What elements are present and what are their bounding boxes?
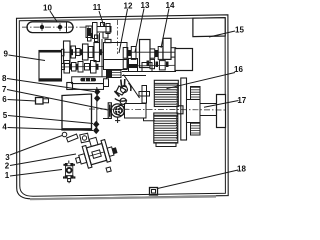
item 3 square bearing — [80, 133, 89, 142]
leader 1 — [10, 170, 62, 177]
leader 2 — [10, 154, 76, 166]
cluster top posts — [88, 34, 99, 42]
vertical axis x=117.5 — [117, 20, 119, 54]
box 5 — [62, 94, 92, 130]
svg-text:13: 13 — [141, 1, 150, 10]
hub tick RA — [128, 50, 131, 56]
u-joint diamond 4 — [93, 127, 99, 134]
small box 7 — [67, 83, 73, 90]
gear L5 — [89, 47, 94, 58]
leader 4 — [8, 128, 94, 131]
capsule 10 inner line — [66, 22, 68, 33]
shaft II centerline — [62, 65, 194, 67]
hub tick RC — [155, 50, 158, 57]
leader 6 — [8, 100, 37, 102]
svg-text:5: 5 — [3, 111, 8, 120]
u-joint diamond 2 — [94, 95, 100, 102]
box 9 — [39, 51, 62, 82]
gear R3 big — [140, 40, 151, 68]
handwheel left bar — [108, 103, 111, 119]
right housing box — [175, 49, 193, 71]
svg-text:12: 12 — [124, 2, 133, 11]
box 9 top band — [39, 51, 62, 53]
box 15 — [193, 18, 225, 37]
svg-text:17: 17 — [237, 96, 246, 105]
box 9 bottom band — [39, 78, 62, 81]
teeth ladder lower — [191, 123, 201, 136]
cone gear lower block — [154, 113, 178, 143]
assembly 11 tall post — [93, 23, 98, 39]
leader 14 — [161, 9, 169, 49]
capsule 10 — [27, 22, 73, 33]
svg-text:10: 10 — [43, 4, 52, 13]
assembly 11 down link — [99, 33, 101, 43]
ratchet arm — [115, 91, 120, 97]
gear M3 — [78, 62, 83, 73]
leader 12 — [119, 9, 128, 53]
plate 17 — [217, 95, 226, 128]
central housing lower box — [104, 60, 128, 70]
box 18 — [150, 188, 158, 196]
bolt below cluster — [139, 86, 150, 104]
main axis centerline y=110 — [89, 109, 226, 110]
sleeve — [200, 104, 217, 116]
gear M5 — [91, 61, 97, 74]
svg-text:6: 6 — [2, 95, 7, 104]
housing top notch — [105, 39, 111, 42]
central housing left double edge — [101, 39, 103, 78]
cone gear base — [156, 143, 176, 147]
item 6 cylinder — [36, 98, 49, 105]
svg-text:15: 15 — [235, 26, 244, 35]
ratchet wheel — [121, 86, 128, 93]
leader 18 — [158, 170, 239, 189]
assembly 11 tee piece — [97, 23, 111, 39]
frame inner border — [19, 18, 225, 197]
leader 10 — [50, 11, 57, 22]
leader 5 — [8, 116, 93, 124]
item 3 lever — [67, 134, 79, 142]
leader 9 — [9, 55, 46, 61]
vertical joint shaft — [96, 87, 98, 133]
gear RA lower — [123, 59, 128, 68]
svg-text:16: 16 — [234, 65, 243, 74]
leader 7 — [7, 90, 108, 111]
spool item 1 — [63, 161, 75, 184]
gear RG lower — [159, 61, 165, 70]
item 3 circle — [62, 132, 67, 137]
cluster baseline 2 — [122, 75, 146, 77]
capsule 10 centerline — [22, 26, 90, 28]
leader 8 — [7, 79, 94, 92]
frame outer border — [17, 15, 229, 199]
dark pill rack — [80, 78, 96, 82]
gear RA upper — [123, 48, 128, 59]
gear M1 — [64, 61, 70, 74]
svg-text:11: 11 — [93, 3, 102, 12]
box beside cylinder piece — [142, 63, 152, 72]
ratchet dark wedge — [116, 86, 126, 95]
shaft shelf step — [144, 119, 156, 121]
gear R6 big — [163, 38, 171, 59]
cone gear upper teeth edge — [177, 84, 178, 105]
teeth ladder upper — [191, 87, 201, 100]
cone gear lower teeth edge — [176, 116, 177, 139]
svg-text:1: 1 — [5, 171, 10, 180]
key rect — [177, 106, 183, 114]
end cap box — [104, 79, 109, 87]
svg-text:9: 9 — [3, 50, 8, 59]
handwheel bottom lip — [103, 118, 111, 120]
capsule 10 dot A — [40, 23, 43, 31]
shaft I centerline — [64, 51, 177, 53]
box 5 bottom band — [62, 128, 92, 130]
lower hub ticks — [147, 61, 169, 68]
gear RD — [158, 47, 163, 60]
gear M2 — [72, 63, 77, 72]
gear L3 — [76, 49, 80, 56]
ratchet base arc — [115, 99, 127, 102]
leader 16 — [167, 73, 236, 89]
svg-text:14: 14 — [166, 1, 175, 10]
svg-text:8: 8 — [2, 74, 7, 83]
gear RB — [131, 47, 136, 60]
gear L6 — [94, 43, 100, 62]
handwheel — [111, 104, 124, 117]
leader 15 — [209, 31, 235, 37]
flat box upper — [72, 77, 107, 84]
ratchet upper prongs — [121, 79, 125, 86]
box 9 output stub — [62, 64, 65, 70]
gear M4 — [85, 64, 90, 71]
gear L1 — [64, 41, 71, 64]
item 2 loose square — [106, 167, 111, 172]
flat box lower — [73, 84, 104, 90]
coupling box — [125, 104, 147, 119]
ratchet hook — [129, 83, 131, 91]
shaft I stub — [62, 49, 65, 56]
small cylinder piece — [129, 59, 138, 72]
svg-text:18: 18 — [237, 165, 246, 174]
hub block — [187, 100, 201, 123]
shaft II hub ticks — [70, 64, 99, 70]
u-joint diamond 1 — [94, 88, 100, 95]
side plate — [181, 78, 187, 140]
pulley circles — [116, 106, 126, 116]
leader 3 — [10, 136, 62, 156]
diagonal brace — [124, 75, 140, 99]
gear RF lower — [150, 59, 155, 68]
central housing upper box — [104, 43, 128, 60]
svg-text:4: 4 — [2, 123, 7, 132]
capsule 10 dot B — [58, 23, 61, 31]
ratchet lower boss — [120, 98, 126, 104]
leader 13 — [135, 9, 144, 53]
cluster baseline — [122, 71, 176, 73]
svg-text:2: 2 — [5, 162, 10, 171]
gear RE — [171, 48, 176, 57]
gear L2 — [71, 46, 76, 58]
frame bottom thick gray bar — [30, 197, 216, 200]
gear L4 — [83, 44, 89, 60]
cone gear upper block — [154, 80, 178, 106]
gear RC — [150, 49, 155, 58]
u-joint diamond 3 — [93, 121, 99, 128]
svg-text:7: 7 — [2, 85, 7, 94]
wheel lower stem — [115, 117, 120, 123]
item 2 cylinder assembly — [72, 133, 119, 171]
leader 17 — [204, 101, 239, 108]
leader 11 — [99, 11, 104, 27]
rack under housing — [107, 70, 122, 77]
assembly 11 left bracket — [86, 26, 92, 38]
shaft I hub ticks — [71, 49, 103, 55]
svg-text:3: 3 — [5, 153, 10, 162]
